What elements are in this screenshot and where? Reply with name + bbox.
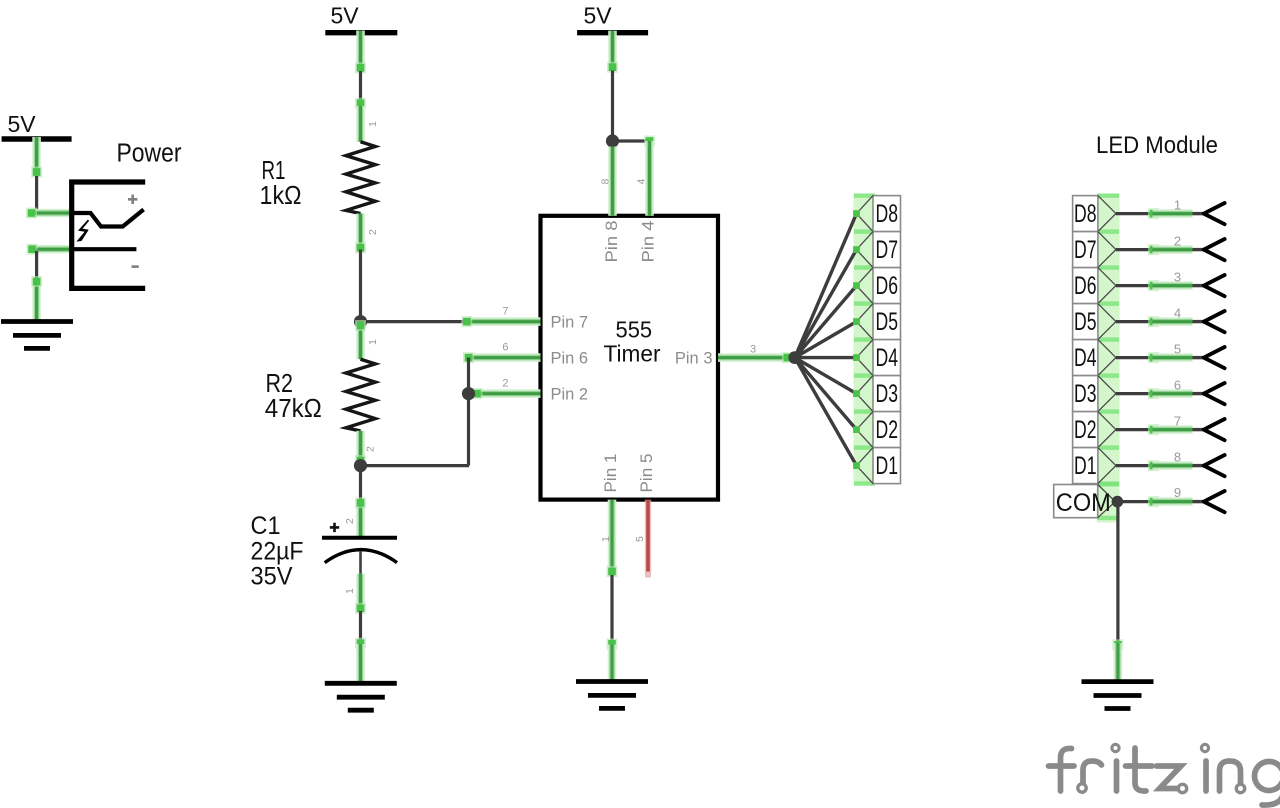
wire (hub to D2): [795, 358, 857, 430]
svg-text:5V: 5V: [8, 111, 37, 137]
wire: [359, 250, 362, 319]
svg-text:1: 1: [344, 588, 356, 594]
wire: [355, 611, 366, 682]
wire: [355, 31, 366, 109]
pin 6 leg: [463, 342, 541, 363]
svg-text:3: 3: [750, 344, 756, 356]
pin 7 leg: [461, 306, 540, 327]
pin 8 leg (LED module): [1116, 449, 1225, 476]
node D3 (left): [853, 376, 900, 412]
wire: [1112, 502, 1123, 682]
ground (LED module): [1082, 682, 1154, 709]
svg-text:22µF: 22µF: [251, 537, 304, 565]
svg-text:COM: COM: [1056, 489, 1111, 517]
capacitor C1 22uF: [251, 466, 398, 614]
svg-text:Power: Power: [117, 140, 182, 168]
svg-text:5: 5: [1174, 341, 1181, 356]
node D1 (left): [853, 448, 900, 484]
wire: [31, 251, 42, 320]
pin 9 leg (COM): [1117, 485, 1224, 512]
node 5V (R1 rail): [325, 3, 397, 33]
wire (hub to D5): [795, 322, 857, 358]
resistor R2 47k: [265, 320, 379, 466]
svg-text:D1: D1: [876, 452, 899, 480]
svg-text:1: 1: [367, 339, 379, 345]
svg-text:Pin 3: Pin 3: [675, 349, 713, 367]
wire: [467, 358, 470, 466]
svg-text:3: 3: [1174, 269, 1181, 284]
node D2 (left): [853, 412, 900, 448]
pin 4 leg (LED module): [1116, 305, 1225, 332]
wire (hub to D4): [795, 356, 857, 359]
svg-text:D6: D6: [876, 272, 899, 300]
node junction pin6/pin2: [462, 387, 475, 400]
svg-text:1kΩ: 1kΩ: [260, 180, 302, 210]
node junction pin8/pin4: [606, 134, 619, 147]
svg-text:47kΩ: 47kΩ: [265, 393, 322, 423]
LED Module title: [1096, 132, 1218, 159]
net label block left band: [854, 193, 876, 485]
node D6 (left): [853, 268, 900, 304]
node D2 (LED module): [1073, 412, 1116, 448]
svg-text:5: 5: [634, 536, 646, 542]
connector J1 Power: [72, 140, 182, 289]
wire (hub to D1): [795, 358, 857, 466]
wire: [613, 139, 650, 142]
svg-text:Pin 4: Pin 4: [640, 221, 658, 263]
LED module band: [1097, 193, 1120, 522]
pin 6 leg (LED module): [1116, 377, 1225, 404]
svg-text:2: 2: [1174, 233, 1181, 248]
wire: [361, 320, 465, 323]
resistor R1 1k: [260, 106, 379, 253]
svg-text:D5: D5: [1074, 308, 1097, 336]
svg-text:9: 9: [1174, 485, 1181, 500]
svg-text:5V: 5V: [331, 3, 360, 29]
wire (hub to D8): [795, 214, 857, 358]
svg-text:Pin 1: Pin 1: [602, 454, 620, 493]
svg-text:D3: D3: [1074, 380, 1097, 408]
ground (555): [576, 682, 648, 709]
node junction R1/R2/Pin7: [354, 315, 367, 328]
svg-text:D4: D4: [876, 344, 899, 372]
node D4 (LED module): [1073, 340, 1116, 376]
svg-text:D2: D2: [1074, 416, 1097, 444]
node COM: [1054, 485, 1116, 518]
svg-text:D3: D3: [876, 380, 899, 408]
wire (hub to D6): [795, 286, 857, 358]
svg-text:D4: D4: [1074, 344, 1097, 372]
svg-text:D5: D5: [876, 308, 899, 336]
svg-text:8: 8: [600, 179, 612, 185]
node D8 (LED module): [1073, 196, 1116, 232]
svg-text:Timer: Timer: [604, 341, 661, 367]
svg-text:D8: D8: [1074, 200, 1097, 228]
svg-text:2: 2: [365, 446, 377, 452]
svg-text:LED Module: LED Module: [1096, 132, 1218, 159]
node D3 (LED module): [1073, 376, 1116, 412]
svg-text:D2: D2: [876, 416, 899, 444]
wire: [607, 31, 618, 139]
svg-text:1: 1: [1174, 197, 1181, 212]
node junction R2/C1/Pin6,2: [354, 459, 367, 472]
svg-text:C1: C1: [251, 512, 281, 540]
svg-text:Pin 5: Pin 5: [638, 454, 656, 493]
pin 2 leg: [472, 378, 541, 399]
op-amp U1 555 Timer: [541, 216, 719, 500]
pin 3 leg (LED module): [1116, 269, 1225, 296]
svg-text:555: 555: [616, 317, 653, 343]
wire: [27, 244, 75, 255]
svg-text:2: 2: [344, 518, 356, 524]
svg-text:6: 6: [502, 342, 508, 354]
svg-text:D1: D1: [1074, 452, 1097, 480]
node 5V (555 rail): [577, 3, 648, 33]
svg-text:4: 4: [636, 179, 648, 185]
svg-text:Pin 7: Pin 7: [551, 313, 589, 331]
svg-text:5V: 5V: [584, 3, 613, 29]
svg-text:D7: D7: [876, 236, 899, 264]
ground (C1): [325, 683, 397, 710]
svg-text:Pin 2: Pin 2: [551, 385, 589, 403]
ground (power): [1, 322, 73, 349]
pin 7 leg (LED module): [1116, 413, 1225, 440]
svg-text:Pin 8: Pin 8: [603, 221, 621, 263]
pin 5 leg (unconnected, red): [634, 500, 651, 578]
wire: [607, 575, 618, 682]
svg-text:D6: D6: [1074, 272, 1097, 300]
pin 1 leg: [600, 500, 618, 577]
svg-text:7: 7: [1174, 413, 1181, 428]
node D6 (LED module): [1073, 268, 1116, 304]
node D7 (left): [853, 232, 900, 268]
pin 3 leg: [718, 344, 793, 363]
svg-text:8: 8: [1174, 449, 1181, 464]
node D1 (LED module): [1073, 448, 1116, 484]
wire: [361, 464, 470, 467]
svg-text:1: 1: [367, 121, 379, 127]
svg-text:2: 2: [367, 229, 379, 235]
pin 1 leg (LED module): [1116, 197, 1225, 224]
node junction COM: [1112, 496, 1124, 508]
node D8 (left): [853, 196, 900, 232]
svg-text:D7: D7: [1074, 236, 1097, 264]
node D5 (LED module): [1073, 304, 1116, 340]
node 5V (power): [2, 111, 72, 139]
pin 8 leg: [600, 147, 613, 216]
node pin3 fan hub: [788, 351, 801, 364]
node D4 (left): [853, 340, 900, 376]
pin 2 leg (LED module): [1116, 233, 1225, 260]
fritzing logo: [1049, 744, 1280, 805]
svg-text:4: 4: [1174, 305, 1181, 320]
wire: [31, 137, 42, 212]
svg-text:D8: D8: [876, 200, 899, 228]
svg-text:6: 6: [1174, 377, 1181, 392]
wire (hub to D7): [795, 250, 857, 358]
node D5 (left): [853, 304, 900, 340]
node D7 (LED module): [1073, 232, 1116, 268]
svg-text:7: 7: [502, 306, 508, 318]
svg-text:35V: 35V: [251, 563, 293, 591]
svg-text:2: 2: [502, 378, 508, 390]
wire (hub to D3): [795, 358, 857, 394]
svg-text:1: 1: [600, 536, 612, 542]
wire: [26, 208, 74, 219]
pin 4 leg: [636, 136, 656, 216]
pin 5 leg (LED module): [1116, 341, 1225, 368]
svg-text:Pin 6: Pin 6: [551, 349, 589, 367]
